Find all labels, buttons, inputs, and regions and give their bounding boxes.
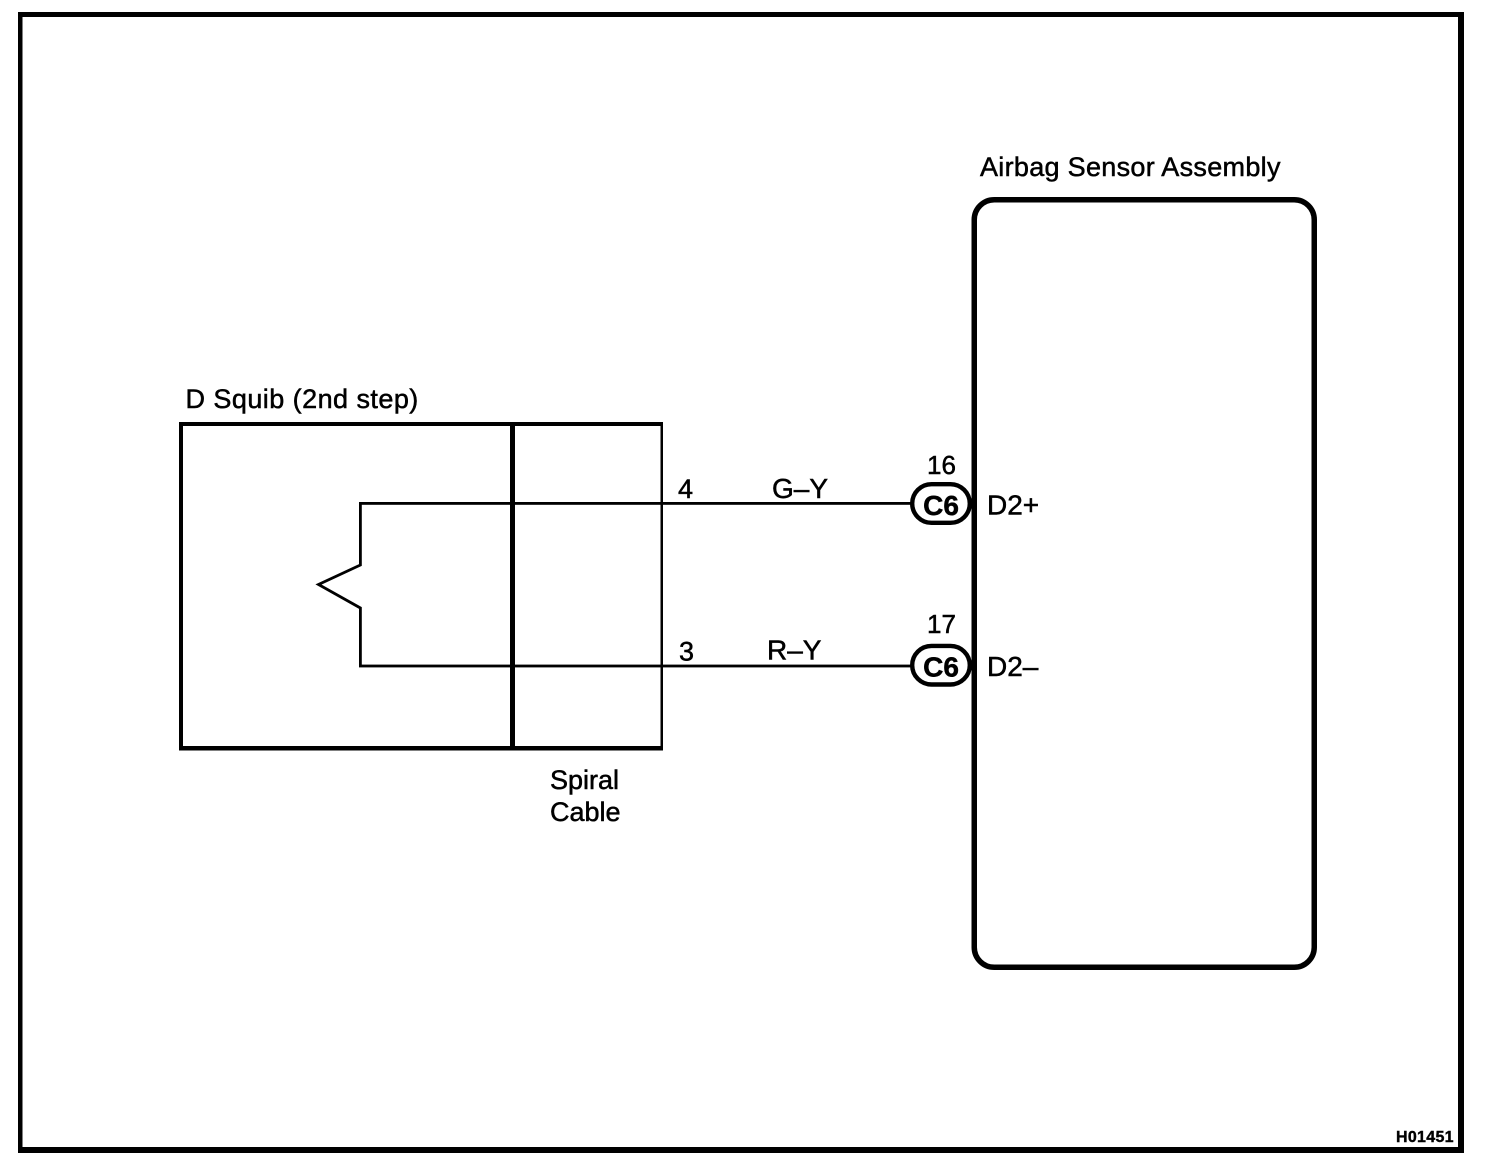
svg-text:Cable: Cable xyxy=(550,797,621,827)
svg-text:Airbag Sensor Assembly: Airbag Sensor Assembly xyxy=(980,152,1281,182)
svg-text:C6: C6 xyxy=(923,490,959,521)
svg-text:16: 16 xyxy=(927,450,956,480)
svg-text:C6: C6 xyxy=(923,652,959,683)
svg-text:H01451: H01451 xyxy=(1396,1129,1454,1146)
svg-text:17: 17 xyxy=(927,609,956,639)
svg-text:R–Y: R–Y xyxy=(767,635,822,666)
svg-text:4: 4 xyxy=(678,474,693,504)
svg-text:D2+: D2+ xyxy=(987,490,1039,521)
svg-text:G–Y: G–Y xyxy=(772,473,828,504)
svg-text:D Squib (2nd step): D Squib (2nd step) xyxy=(186,384,419,414)
svg-text:D2–: D2– xyxy=(987,651,1039,682)
svg-text:3: 3 xyxy=(679,637,694,667)
svg-text:Spiral: Spiral xyxy=(550,765,619,795)
